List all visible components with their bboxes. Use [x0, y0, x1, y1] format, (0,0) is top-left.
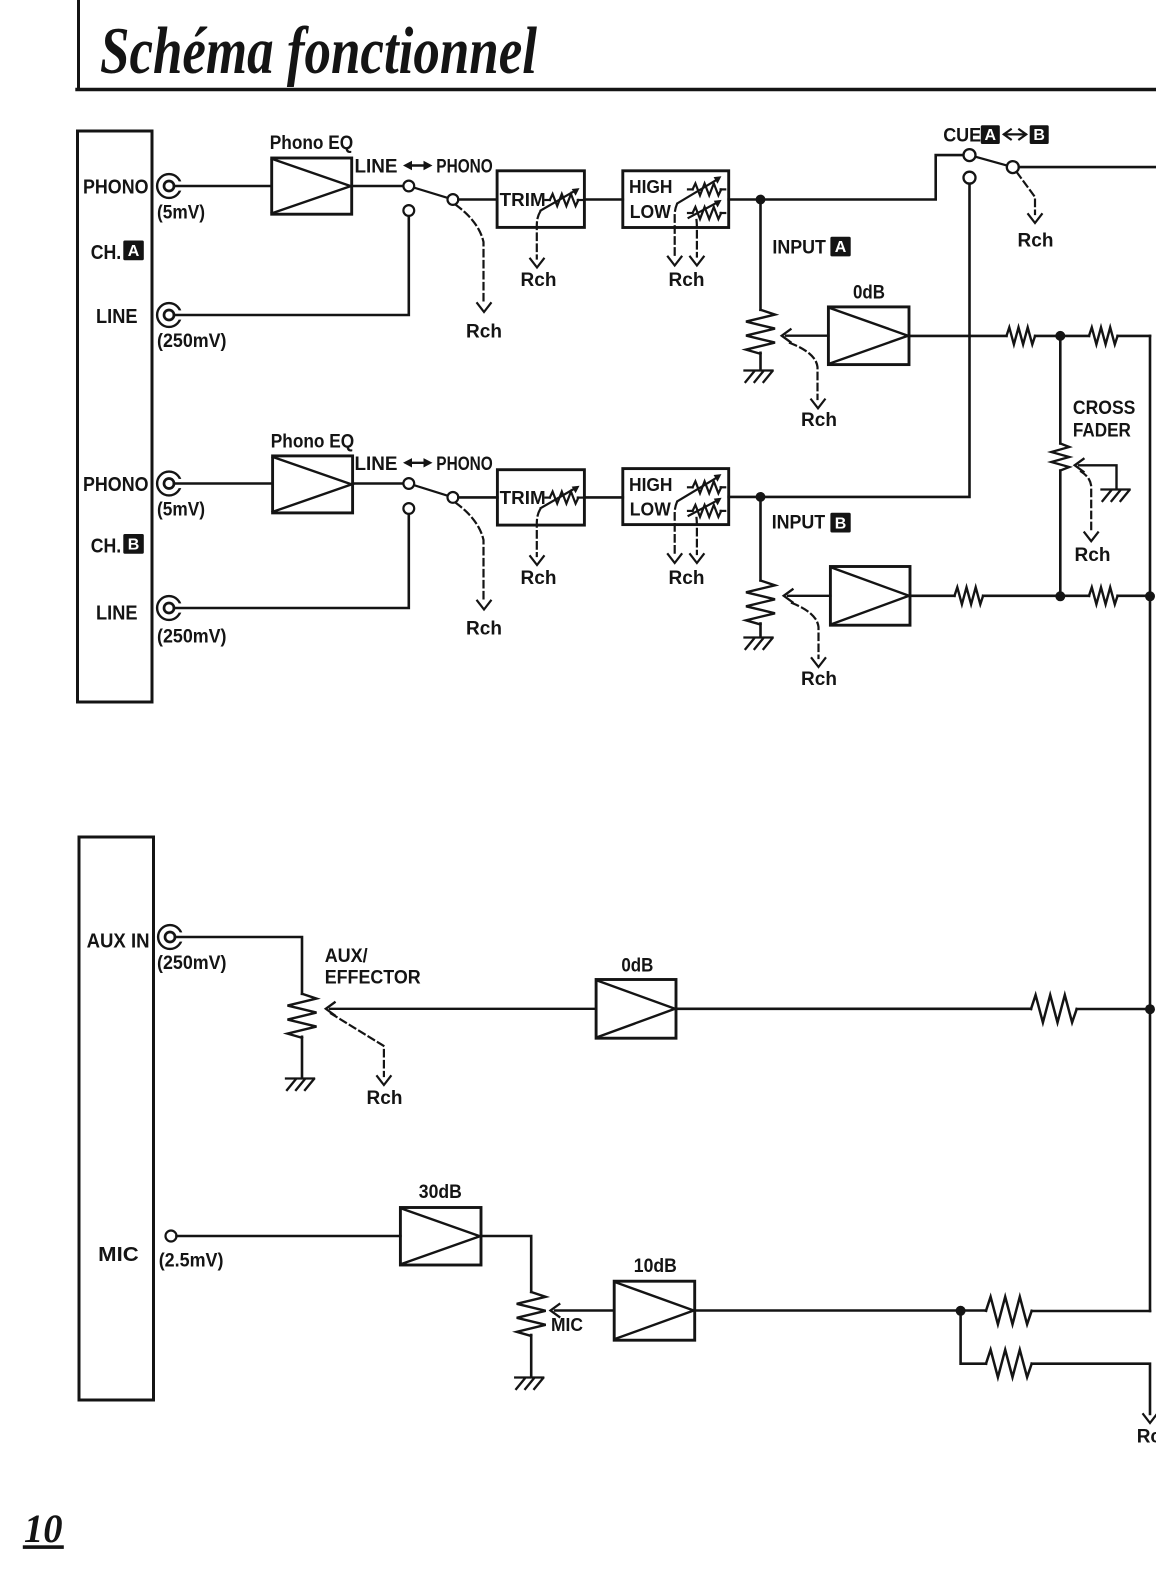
resistor (A out 1): [1007, 327, 1036, 344]
svg-text:MIC: MIC: [551, 1315, 583, 1335]
ground (fader A): [745, 371, 773, 383]
wire fader B to ground: [759, 624, 762, 638]
node MIC out: [956, 1306, 966, 1316]
arrow Rch output: [1143, 1414, 1156, 1423]
node B/crossfader: [1055, 591, 1065, 601]
resistor (MIC out lower): [986, 1350, 1032, 1378]
label LINE-PHONO B: [355, 454, 493, 475]
svg-text:PHONO: PHONO: [436, 454, 493, 475]
wire node A to crossfader pot: [1059, 336, 1062, 444]
label INPUT B: [772, 513, 851, 534]
svg-text:PHONO: PHONO: [436, 157, 493, 178]
ground (AUX pot): [286, 1079, 314, 1091]
dashed Rch arrow from TRIM B: [530, 510, 544, 565]
wiper arrow crossfader: [1075, 459, 1117, 488]
badge A (CH A): [123, 241, 144, 261]
title frame bottom rule: [77, 88, 1156, 91]
label CROSS FADER: [1073, 398, 1136, 441]
wire junction A to fader: [759, 200, 762, 310]
svg-text:Rch: Rch: [521, 270, 557, 291]
dashed Rch arrows from HIGH/LOW A: [668, 205, 704, 266]
dashed Rch arrows from HIGH/LOW B: [668, 502, 704, 563]
wire amp A out: [909, 335, 1007, 338]
svg-text:(5mV): (5mV): [157, 203, 205, 224]
jack LINE A: [157, 303, 184, 327]
amp Phono EQ A: [272, 158, 352, 214]
node input A junction: [756, 195, 766, 205]
wire CUE common out: [1019, 166, 1156, 169]
wire right bus: [1149, 336, 1152, 1311]
svg-text:PHONO: PHONO: [83, 474, 149, 496]
svg-text:EFFECTOR: EFFECTOR: [325, 968, 421, 989]
dashed Rch arrow from crossfader: [1081, 472, 1098, 542]
potentiometer fader A: [746, 310, 775, 354]
wire switch B to TRIM: [458, 496, 497, 499]
jack LINE B: [157, 596, 184, 620]
input panel box AUX/MIC: [79, 837, 154, 1400]
dashed Rch arrow from CUE: [1017, 173, 1042, 224]
title frame left rule: [77, 0, 80, 90]
block HIGH/LOW A: [623, 171, 729, 228]
svg-text:(5mV): (5mV): [157, 500, 205, 521]
dashed Rch arrow from TRIM A: [530, 212, 544, 268]
svg-text:0dB: 0dB: [853, 283, 885, 304]
svg-text:(2.5mV): (2.5mV): [159, 1251, 224, 1272]
svg-text:Rch: Rch: [801, 410, 837, 431]
label CUE A-B: [943, 125, 1048, 146]
wire A out to right bus: [1118, 335, 1150, 338]
potentiometer fader B: [746, 581, 775, 625]
wiper arrow fader A: [782, 329, 829, 342]
wire AUX out to right bus: [1077, 1008, 1150, 1011]
svg-text:10: 10: [24, 1506, 63, 1551]
dashed Rch arrow from switch A: [456, 205, 491, 312]
amp 0dB AUX: [596, 980, 676, 1039]
svg-text:10dB: 10dB: [634, 1256, 677, 1277]
svg-text:A: A: [128, 243, 140, 260]
wire AUX jack to pot: [175, 937, 302, 994]
svg-text:TRIM: TRIM: [500, 190, 546, 210]
jack MIC: [166, 1231, 177, 1242]
svg-text:(250mV): (250mV): [157, 953, 227, 974]
amp 10dB: [614, 1281, 695, 1340]
wire AUX amp out: [676, 1007, 1031, 1010]
block TRIM A: [497, 171, 584, 228]
node A/crossfader: [1055, 331, 1065, 341]
amp Phono EQ B: [273, 456, 353, 513]
wire TRIM B to HIGH/LOW: [584, 496, 622, 499]
svg-text:Phono EQ: Phono EQ: [270, 133, 354, 154]
dashed Rch arrow from fader B: [792, 603, 825, 667]
node AUX on right bus: [1145, 1004, 1155, 1014]
svg-text:Rch: Rch: [1137, 1427, 1156, 1448]
svg-text:Phono EQ: Phono EQ: [271, 432, 355, 453]
wire HIGH/LOW A to CUE riser: [729, 155, 963, 199]
svg-text:LOW: LOW: [630, 202, 671, 222]
resistor (AUX out): [1031, 995, 1077, 1023]
wire fader A to ground: [759, 353, 762, 370]
wire AUX pot to ground: [301, 1037, 304, 1078]
block HIGH/LOW B: [623, 469, 729, 525]
node B on right bus: [1145, 591, 1155, 601]
svg-text:A: A: [835, 239, 847, 256]
svg-text:Rch: Rch: [367, 1088, 403, 1109]
label AUX/EFFECTOR: [325, 946, 421, 988]
wire switch A to TRIM: [458, 198, 497, 201]
switch LINE/PHONO B: [403, 478, 458, 514]
svg-text:CH.: CH.: [91, 535, 122, 557]
ground (fader B): [745, 638, 773, 650]
resistor (B out 1): [955, 587, 984, 604]
wire LINE A jack to switch: [174, 217, 409, 315]
wire crossfader pot to node B: [1059, 471, 1062, 597]
ground (MIC pot): [515, 1378, 543, 1390]
svg-text:INPUT: INPUT: [772, 513, 826, 534]
svg-text:FADER: FADER: [1073, 420, 1131, 441]
svg-text:INPUT: INPUT: [772, 238, 826, 259]
svg-text:MIC: MIC: [98, 1244, 139, 1266]
svg-text:LINE: LINE: [96, 602, 138, 624]
wiper arrow fader B: [784, 589, 831, 602]
amp 0dB B: [830, 567, 910, 626]
input panel box CH A/B: [78, 131, 153, 702]
svg-text:CH.: CH.: [91, 242, 122, 264]
svg-text:B: B: [835, 515, 847, 532]
svg-text:Rch: Rch: [466, 618, 502, 639]
wire 30dB out to MIC pot: [481, 1236, 531, 1292]
wire MIC upper to right bus: [1032, 1310, 1150, 1313]
wire to node B: [983, 594, 1089, 597]
wire MIC lower to Rch arrow: [1032, 1364, 1150, 1414]
switch CUE A/B: [964, 149, 1019, 184]
svg-text:AUX IN: AUX IN: [87, 930, 150, 952]
svg-text:AUX/: AUX/: [325, 946, 369, 967]
svg-text:Rch: Rch: [801, 669, 837, 690]
wire phono A jack to EQ: [174, 185, 272, 188]
svg-text:Rch: Rch: [1018, 231, 1054, 252]
switch LINE/PHONO A: [403, 181, 458, 216]
jack AUX IN: [158, 925, 185, 949]
svg-text:B: B: [128, 537, 140, 554]
label INPUT A: [772, 237, 850, 259]
svg-text:Schéma fonctionnel: Schéma fonctionnel: [100, 14, 537, 88]
wire MIC pot to ground: [530, 1335, 533, 1377]
badge B (CH B): [123, 534, 144, 554]
wire 10dB out: [695, 1309, 986, 1312]
resistor (B out 2): [1089, 587, 1118, 604]
svg-text:LINE: LINE: [355, 454, 398, 475]
svg-text:LOW: LOW: [630, 500, 671, 520]
svg-text:Rch: Rch: [1075, 545, 1111, 566]
svg-text:A: A: [985, 127, 997, 144]
dashed Rch arrow from fader A: [790, 343, 825, 408]
wire phono B jack to EQ: [174, 482, 273, 485]
jack PHONO A: [157, 174, 184, 198]
node input B junction: [756, 492, 766, 502]
svg-text:Rch: Rch: [521, 568, 557, 589]
label LINE-PHONO A: [355, 157, 493, 178]
svg-text:HIGH: HIGH: [629, 177, 673, 197]
amp 30dB: [400, 1208, 481, 1266]
potentiometer CROSS FADER: [1051, 444, 1069, 471]
wire LINE B jack to switch: [174, 515, 409, 609]
wire amp B out: [910, 594, 955, 597]
potentiometer MIC: [517, 1292, 546, 1336]
svg-text:(250mV): (250mV): [157, 627, 227, 648]
wire EQ B to switch: [353, 482, 404, 485]
svg-text:HIGH: HIGH: [629, 475, 673, 495]
wire TRIM A to HIGH/LOW: [584, 198, 622, 201]
page number 10: [23, 1506, 64, 1551]
wire MIC jack to 30dB amp: [177, 1235, 401, 1238]
wire EQ A to switch: [352, 185, 404, 188]
svg-text:(250mV): (250mV): [157, 331, 227, 352]
svg-text:B: B: [1033, 127, 1045, 144]
svg-text:CROSS: CROSS: [1073, 398, 1136, 419]
svg-text:CUE: CUE: [943, 125, 981, 146]
svg-text:30dB: 30dB: [419, 1182, 462, 1203]
svg-text:0dB: 0dB: [621, 955, 653, 976]
svg-text:Rch: Rch: [466, 321, 502, 342]
jack PHONO B: [157, 472, 184, 496]
amp 0dB A: [828, 307, 909, 365]
potentiometer AUX/EFFECTOR: [288, 994, 317, 1038]
wire MIC node down: [961, 1311, 986, 1364]
wire CUE B riser: [729, 184, 970, 497]
wire junction B to fader: [759, 497, 762, 581]
wiper arrow AUX pot: [326, 1002, 596, 1015]
svg-text:Rch: Rch: [669, 568, 705, 589]
ground (crossfader): [1102, 490, 1130, 502]
dashed Rch arrow from AUX pot: [331, 1014, 391, 1086]
svg-text:LINE: LINE: [96, 306, 138, 328]
wire B out to right bus: [1118, 594, 1150, 597]
svg-text:TRIM: TRIM: [500, 488, 546, 508]
wiper arrow MIC pot: [551, 1304, 615, 1317]
dashed Rch arrow from switch B: [456, 503, 491, 610]
svg-text:PHONO: PHONO: [83, 176, 149, 198]
svg-text:Rch: Rch: [669, 270, 705, 291]
resistor (A out 2): [1089, 327, 1118, 344]
resistor (MIC out upper): [986, 1297, 1032, 1325]
block TRIM B: [497, 470, 584, 525]
svg-text:LINE: LINE: [355, 157, 398, 178]
wire to node: [1035, 335, 1089, 338]
